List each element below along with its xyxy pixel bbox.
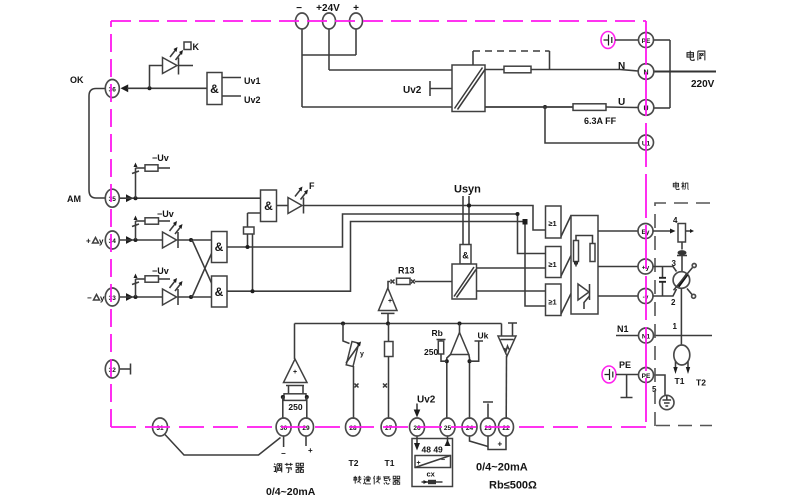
- power supply module: [403, 51, 638, 126]
- wire -y to motor: [653, 289, 677, 296]
- bracket 24-23-22: [470, 436, 507, 450]
- node below resistor a: [574, 261, 578, 265]
- AND gate A2: [212, 276, 228, 307]
- wire Ey: [598, 230, 638, 232]
- OR3 slash: [561, 294, 571, 315]
- svg-text:−: −: [441, 457, 445, 464]
- svg-text:−Uv: −Uv: [152, 266, 169, 276]
- bottom right labels: [476, 462, 537, 492]
- wire R13 to sync box: [415, 281, 452, 283]
- row 33 -dy: [87, 254, 212, 307]
- armature bar: [678, 275, 687, 287]
- -Uv branch 35: riser: [135, 168, 137, 198]
- svg-text:F: F: [309, 181, 315, 191]
- terminal N: [638, 64, 654, 80]
- svg-text:cx: cx: [427, 470, 436, 479]
- right leg: [468, 355, 471, 420]
- terminal 25: [440, 418, 455, 436]
- LED F arrows: [295, 190, 306, 200]
- bracket vertical: [669, 40, 671, 108]
- resistor b: [590, 244, 595, 262]
- svg-text:+: +: [417, 460, 421, 467]
- capacitor across armature: [662, 267, 664, 297]
- node after LED: [189, 238, 193, 242]
- svg-text:30: 30: [280, 425, 288, 432]
- svg-text:36: 36: [109, 87, 117, 94]
- earth symbol magenta PE top: [601, 32, 615, 49]
- LED K arrows: [170, 50, 181, 60]
- coupling resistor box: [244, 227, 255, 234]
- LED 33 arrows: [170, 281, 181, 291]
- svg-text:220V: 220V: [691, 79, 715, 90]
- wire to node of gate2 output: [252, 234, 254, 291]
- ground stub: [621, 375, 633, 398]
- LED 34 arrows: [170, 224, 181, 234]
- terminal 26: [410, 418, 425, 436]
- terminal minus: [296, 13, 309, 29]
- top supply terminals: [296, 3, 640, 143]
- wire motor to tacho: [680, 288, 682, 345]
- terminal U: [638, 100, 654, 116]
- svg-text:27: 27: [385, 425, 393, 432]
- stub Uv2: [222, 95, 241, 97]
- resistor N line: [504, 66, 531, 73]
- arrowhead from 35: [126, 194, 134, 202]
- meter box: [412, 436, 453, 487]
- thyristor power box: [571, 216, 598, 315]
- wire gate to LED F: [277, 205, 289, 207]
- svg-text:+: +: [308, 446, 313, 455]
- terminal 32: [105, 360, 130, 378]
- wire LED K branch: [150, 66, 163, 89]
- node: [134, 238, 138, 242]
- node junction U branch: [543, 105, 547, 109]
- wire rail to pot: [343, 324, 350, 344]
- wire A2 output: [227, 222, 525, 292]
- wire PE to bracket: [654, 39, 670, 41]
- node A2 out: [251, 289, 255, 293]
- wire LED to gate1: [178, 239, 212, 241]
- border bottom edge: [111, 426, 646, 428]
- border top edge: [111, 20, 646, 22]
- svg-text:35: 35: [109, 196, 117, 203]
- brush slash 2: [687, 289, 692, 295]
- LED F bar: [303, 198, 305, 214]
- LED 33 diode: [163, 289, 177, 305]
- terminal 23: [481, 418, 496, 436]
- resistor a: [574, 241, 579, 262]
- svg-text:+: +: [498, 440, 503, 449]
- svg-text:+: +: [86, 237, 91, 246]
- inverter triangle: [498, 336, 516, 356]
- svg-text:Uv1: Uv1: [244, 76, 261, 86]
- tacho: [674, 345, 690, 365]
- wire rail to top: [501, 324, 503, 337]
- svg-text:≥1: ≥1: [548, 219, 556, 228]
- terminal PE2: [639, 368, 654, 383]
- wire 31 to 30: [165, 434, 281, 455]
- R13 and pulse amp: [379, 266, 453, 324]
- terminal 23 stub: [483, 402, 493, 419]
- OR1: [546, 206, 562, 238]
- arrowhead from 33: [126, 293, 134, 301]
- terminal 33: [105, 288, 119, 306]
- terminal U1: [639, 135, 654, 150]
- resistor -Uv 34: [145, 218, 159, 224]
- svg-text:Usyn: Usyn: [454, 184, 481, 196]
- bus1 wire LED F to OR1: [304, 206, 547, 231]
- inverter 22: [498, 323, 517, 419]
- terminal +y: [638, 259, 653, 274]
- drop to 30: [283, 397, 284, 419]
- wire U to bracket: [654, 107, 670, 109]
- wire resistor to N: [531, 70, 638, 72]
- svg-text:y: y: [100, 294, 105, 303]
- Usyn input: [452, 184, 546, 300]
- bus3 drop to OR3: [525, 222, 546, 307]
- tacho leads: [676, 362, 689, 370]
- wire Ey to fuse: [653, 230, 671, 232]
- x mark left: [391, 280, 395, 284]
- svg-text:N: N: [618, 61, 625, 72]
- LED F diode: [288, 198, 302, 214]
- svg-text:32: 32: [109, 367, 117, 374]
- terminal 28: [346, 418, 361, 436]
- svg-text:&: &: [215, 240, 224, 254]
- svg-text:48 49: 48 49: [422, 445, 444, 455]
- svg-text:250: 250: [288, 402, 302, 412]
- resistor -Uv 35: [145, 165, 158, 171]
- wire N to grid: [654, 71, 716, 73]
- magenta border: [111, 21, 646, 427]
- wire rail to apex: [294, 324, 296, 360]
- cross wire down: [191, 240, 212, 283]
- svg-text:−Uv: −Uv: [157, 209, 174, 219]
- row 36 OK: [70, 42, 261, 198]
- label tiaojieqi: [274, 463, 304, 473]
- terminal PE: [639, 33, 654, 48]
- wire box to fuse: [485, 106, 573, 108]
- T input: [508, 323, 517, 336]
- left leg: [447, 355, 451, 420]
- wire +24V to supply box: [329, 69, 452, 71]
- wire N from box: [485, 69, 504, 71]
- svg-text:Uv2: Uv2: [403, 85, 422, 96]
- svg-text:6.3A FF: 6.3A FF: [584, 116, 617, 126]
- latch gates: [212, 214, 526, 307]
- brush slash: [674, 268, 693, 291]
- wire +y to motor: [653, 267, 677, 272]
- LED 34 diode: [163, 232, 177, 248]
- Uv2 input bar: [429, 81, 431, 96]
- svg-text:34: 34: [109, 238, 117, 245]
- terminal plus: [350, 13, 363, 29]
- svg-text:−: −: [87, 294, 92, 303]
- resistor R13: [397, 278, 411, 284]
- svg-text:U: U: [618, 97, 625, 108]
- terminal N1: [639, 328, 654, 343]
- fuse symbol: [422, 481, 443, 483]
- svg-text:+: +: [293, 369, 297, 376]
- wire N1 right: [654, 335, 713, 337]
- wire apex to 22: [505, 356, 507, 419]
- grid connection right: [601, 32, 716, 151]
- svg-text:T1: T1: [385, 458, 395, 468]
- svg-text:Uk: Uk: [478, 331, 489, 341]
- stub minus under 30: [283, 436, 285, 447]
- svg-text:T2: T2: [696, 378, 706, 388]
- svg-text:y: y: [360, 351, 364, 358]
- top links: [576, 236, 593, 244]
- wire amp apex to R13: [388, 282, 391, 289]
- pot T2: [346, 342, 359, 367]
- wire +y: [598, 266, 638, 268]
- bus2 drop to OR2: [518, 214, 547, 254]
- svg-text:OK: OK: [70, 75, 84, 85]
- motor dashed box: [655, 203, 717, 426]
- node bus1 tap: [467, 204, 471, 208]
- AND gate F: [261, 190, 277, 222]
- OR2: [546, 247, 562, 278]
- svg-text:2: 2: [671, 298, 676, 307]
- wire A1 output: [227, 214, 518, 247]
- wire sync out lower: [477, 290, 547, 292]
- svg-text:N1: N1: [617, 324, 629, 334]
- terminal 31: [153, 418, 168, 436]
- svg-text:R13: R13: [398, 266, 415, 276]
- motor section: [653, 182, 717, 426]
- x mark 28: [355, 384, 359, 388]
- svg-text:33: 33: [109, 295, 117, 302]
- AND gate A1: [212, 232, 228, 263]
- stub Uv1: [222, 77, 241, 79]
- wire Uv2 to box: [430, 88, 452, 90]
- wire +24V down: [328, 29, 330, 70]
- fuse 6.3A FF: [573, 104, 606, 111]
- wire to motor top: [681, 256, 683, 272]
- svg-text:+: +: [388, 298, 392, 305]
- cross wire up: [191, 254, 212, 298]
- label zhuansu sensor: [353, 476, 400, 485]
- connector: [678, 250, 687, 255]
- svg-text:T1: T1: [675, 376, 685, 386]
- LED K diode: [163, 58, 178, 74]
- arrowhead from 34: [126, 236, 134, 244]
- wire after resistor: [158, 167, 170, 169]
- svg-text:Rb: Rb: [432, 328, 443, 338]
- wire rail to apex: [459, 324, 461, 335]
- OR3: [546, 284, 562, 316]
- wire minus-plus join: [302, 54, 356, 56]
- supply box U1: [452, 65, 485, 112]
- svg-text:24: 24: [466, 425, 474, 432]
- wire 34 to LED: [120, 239, 163, 241]
- svg-text:K: K: [193, 42, 200, 52]
- feedback resistor 250: [284, 394, 306, 401]
- sync transformer box: [452, 264, 477, 299]
- wire pulse amp to 27: [388, 324, 390, 342]
- arrowhead into 36: [121, 84, 129, 92]
- wire 33 to LED: [120, 296, 163, 298]
- border right edge: [645, 21, 647, 427]
- wire -y: [598, 295, 638, 297]
- rail wire: [295, 323, 502, 325]
- wire earth to PE2: [616, 374, 638, 376]
- resistor 27: [385, 342, 394, 357]
- control rail: [295, 322, 502, 326]
- wire N1 left: [616, 335, 638, 337]
- Uv2 input 26: [414, 395, 436, 418]
- wire after bar: [179, 65, 194, 67]
- svg-text:0/4~20mA: 0/4~20mA: [266, 486, 316, 498]
- svg-text:1: 1: [673, 322, 678, 331]
- wire sync out upper: [477, 267, 547, 269]
- terminal 27: [381, 418, 396, 436]
- LED 34 bar: [177, 232, 179, 248]
- svg-text:T2: T2: [349, 458, 359, 468]
- svg-text:&: &: [264, 199, 273, 213]
- wire earth to PE: [615, 39, 638, 41]
- terminal 36: [105, 80, 119, 98]
- svg-text:&: &: [462, 251, 469, 261]
- svg-text:31: 31: [156, 425, 164, 432]
- node: [148, 86, 152, 90]
- drop to 29: [306, 397, 308, 419]
- display rect: [415, 456, 451, 468]
- LED K cathode bar: [178, 58, 180, 75]
- AND gate U36: [207, 73, 222, 105]
- svg-text:−Uv: −Uv: [152, 153, 169, 163]
- OR gates: [516, 206, 572, 316]
- terminal 34: [105, 231, 119, 249]
- node after LED: [189, 295, 193, 299]
- row 34 +dy: [86, 209, 212, 283]
- gate F + LED F: [244, 181, 547, 291]
- node A1 out: [246, 245, 250, 249]
- terminal 29: [299, 418, 314, 436]
- box diagonal: [455, 68, 486, 110]
- svg-text:y: y: [99, 237, 104, 246]
- svg-text:AM: AM: [67, 194, 81, 204]
- svg-text:26: 26: [413, 425, 421, 432]
- legs: [289, 386, 304, 394]
- LED 33 bar: [177, 289, 179, 305]
- svg-text:≥1: ≥1: [548, 298, 556, 307]
- svg-text:23: 23: [484, 425, 492, 432]
- wire bow 36 to 35: [89, 89, 106, 199]
- wire bottom rail to U: [302, 106, 573, 108]
- pot arrow: [346, 346, 359, 364]
- svg-text:Uv2: Uv2: [244, 95, 261, 105]
- comparator triangle: [451, 333, 469, 355]
- wire pot to 28: [353, 366, 355, 419]
- svg-text:&: &: [210, 82, 219, 96]
- comparator 25/24: [424, 324, 489, 420]
- row 35 AM: [67, 153, 261, 207]
- -Uv branch 33 riser: [135, 279, 137, 297]
- svg-text:Rb≤500Ω: Rb≤500Ω: [489, 480, 537, 492]
- wire U1 branch: [545, 107, 639, 143]
- svg-text:≥1: ≥1: [548, 260, 556, 269]
- svg-text:0/4~20mA: 0/4~20mA: [476, 462, 528, 474]
- svg-text:−: −: [281, 449, 286, 458]
- terminal 35: [105, 189, 119, 207]
- wire to node of gate1 output: [247, 234, 249, 247]
- pulse amp triangle: [379, 288, 398, 311]
- terminal 30: [276, 418, 291, 436]
- resistor -Uv 33: [145, 276, 159, 282]
- label box K: [184, 42, 191, 50]
- wire amp to rail: [387, 313, 389, 323]
- label dianji: [673, 182, 688, 190]
- x mark right: [411, 280, 415, 284]
- armature terminals right: [598, 224, 712, 410]
- Usyn double wire: [463, 196, 469, 245]
- earth symbol magenta PE bottom: [602, 366, 616, 383]
- border left edge: [110, 21, 112, 427]
- node Usyn tap: [467, 204, 471, 208]
- regulator triangle: [284, 359, 308, 383]
- dashed bypass link: [472, 51, 474, 65]
- svg-text:22: 22: [502, 425, 510, 432]
- wire plus down: [355, 29, 357, 55]
- wire LED to gate2: [178, 296, 212, 298]
- field fuse: [678, 224, 686, 243]
- wire PE2 right: [654, 375, 666, 395]
- terminal +24V: [323, 13, 336, 29]
- x mark 27: [383, 384, 387, 388]
- OR1 slash: [561, 216, 571, 237]
- terminal -y: [638, 289, 653, 304]
- wire to resistor: [136, 220, 146, 222]
- terminal 24: [462, 418, 477, 436]
- OR2 slash: [561, 256, 571, 277]
- switch tick: [132, 171, 139, 174]
- wire fuse to U: [606, 106, 638, 109]
- svg-text:Uv2: Uv2: [417, 395, 436, 406]
- motor circle: [673, 272, 690, 289]
- down arrow from 26: [416, 436, 418, 444]
- wire to resistor: [136, 167, 146, 169]
- wire fuse down: [681, 242, 683, 250]
- node: [134, 196, 138, 200]
- up arrow to 25: [447, 436, 449, 446]
- svg-text:250: 250: [424, 347, 438, 357]
- node: [134, 295, 138, 299]
- wire minus down: [301, 29, 303, 107]
- wire 36 to AND gate: [127, 87, 207, 89]
- thyristor: [578, 284, 589, 300]
- terminal 22: [499, 418, 514, 436]
- svg-text:&: &: [215, 285, 224, 299]
- regulator opamp: [165, 324, 316, 499]
- label dianwang: [687, 51, 705, 61]
- svg-text:29: 29: [302, 425, 310, 432]
- stub plus under 29: [305, 436, 307, 446]
- earth circle: [660, 395, 674, 409]
- svg-text:28: 28: [349, 425, 357, 432]
- -Uv branch 34 riser: [135, 221, 137, 240]
- gate F lower input: [248, 213, 261, 227]
- tacho sensor branches: [343, 324, 400, 485]
- terminal Ey: [638, 224, 653, 239]
- svg-text:PE: PE: [619, 360, 631, 370]
- shaper box: [460, 245, 471, 265]
- svg-text:25: 25: [444, 425, 452, 432]
- stub right of fuse: [686, 230, 692, 232]
- wire 35 to gate F: [120, 197, 261, 199]
- bottom terminals: [153, 418, 514, 436]
